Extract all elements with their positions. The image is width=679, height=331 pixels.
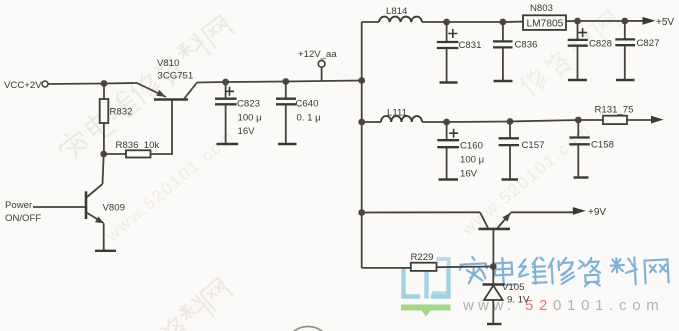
wire emitter to +9V arrow — [511, 211, 574, 213]
node junction C836 top — [500, 19, 507, 26]
ground for C158 — [574, 176, 589, 178]
resistor R131 value 75 — [595, 105, 634, 125]
node +12V_aa terminal — [298, 49, 337, 81]
svg-text:+5V: +5V — [656, 17, 674, 28]
svg-text:R832: R832 — [110, 107, 133, 118]
wire R836 to V810 base — [151, 100, 173, 154]
capacitor C160 polarized 100u 16V — [437, 122, 484, 180]
resistor R832 — [100, 99, 133, 123]
capacitor C828 polarized — [568, 21, 612, 80]
svg-text:V105: V105 — [502, 282, 524, 293]
wire V809 emitter down — [103, 223, 105, 250]
capacitor C831 polarized — [437, 22, 482, 82]
svg-text:0. 1 μ: 0. 1 μ — [297, 113, 321, 124]
svg-text:C831: C831 — [459, 40, 482, 51]
svg-text:C158: C158 — [591, 140, 614, 151]
ground for C828 — [568, 79, 587, 81]
node junction main bus top — [358, 77, 365, 84]
svg-text:C828: C828 — [589, 39, 612, 50]
svg-text:+9V: +9V — [588, 207, 606, 218]
svg-text:N803: N803 — [530, 3, 553, 14]
node junction C640 top — [282, 78, 289, 85]
wire zener to ground — [492, 301, 494, 324]
capacitor C640 value 0.1u — [276, 82, 321, 144]
wire R832 top lead — [103, 84, 105, 100]
svg-text:3CG751: 3CG751 — [158, 71, 194, 82]
regulator N803 LM7805 — [523, 3, 566, 30]
svg-text:ON/OFF: ON/OFF — [5, 213, 41, 224]
svg-text:L111: L111 — [387, 108, 407, 119]
wire bus to L111 — [362, 121, 381, 123]
ground for C157 — [502, 178, 519, 180]
wire bus corner to R229 — [362, 267, 411, 269]
inductor L814 — [379, 6, 422, 22]
node junction C823 top — [222, 79, 229, 86]
wire +12V rail — [197, 81, 362, 83]
wire junction to R836 — [104, 153, 126, 155]
node junction R836 left — [100, 151, 107, 158]
node junction zener top — [490, 263, 497, 270]
svg-text:16V: 16V — [238, 126, 256, 137]
svg-text:9. 1V: 9. 1V — [507, 295, 530, 306]
svg-text:C823: C823 — [237, 99, 260, 110]
svg-text:V810: V810 — [157, 58, 179, 69]
capacitor C827 — [615, 21, 659, 80]
node VCC+2V — [4, 80, 48, 91]
svg-text:VCC+2V: VCC+2V — [4, 80, 42, 91]
ground for C827 — [616, 79, 635, 81]
node junction C828 top — [574, 18, 581, 25]
capacitor C836 — [493, 22, 537, 81]
ground for C831 — [440, 81, 458, 83]
ground for C640 — [278, 143, 297, 145]
svg-text:V809: V809 — [103, 203, 125, 214]
wire bus to pass transistor — [362, 211, 480, 213]
wire R832 bottom lead — [103, 123, 105, 154]
node +5V output arrow — [643, 17, 675, 28]
svg-text:16V: 16V — [460, 169, 478, 180]
svg-text:Power: Power — [5, 200, 33, 211]
svg-text:R131_75: R131_75 — [595, 105, 634, 116]
resistor R229 — [411, 252, 437, 271]
svg-text:LM7805: LM7805 — [527, 19, 564, 30]
inductor L111 — [381, 108, 422, 123]
wire R229 to zener node — [437, 266, 494, 269]
node +9V output arrow — [573, 207, 607, 218]
svg-text:100 μ: 100 μ — [238, 113, 262, 124]
wire V809 collector up — [103, 154, 104, 184]
svg-text:R836_10k: R836_10k — [116, 140, 160, 151]
ground for V809 — [95, 250, 116, 252]
ground for C160 — [439, 178, 459, 180]
svg-text:R229: R229 — [411, 252, 434, 263]
wire L814 to regulator — [422, 21, 523, 23]
node junction C160 top — [443, 119, 450, 126]
node junction bus 9V row — [358, 209, 365, 216]
node junction R832 top — [101, 80, 108, 87]
capacitor C158 — [569, 120, 614, 177]
wire VCC rail left — [48, 83, 137, 84]
svg-text:C157: C157 — [522, 140, 545, 151]
svg-text:L814: L814 — [386, 6, 408, 17]
svg-text:0101.com: 0101.com — [553, 297, 664, 314]
wire bus to L814 — [362, 21, 379, 23]
node L111 output arrow — [651, 116, 664, 124]
wire V809 base — [33, 206, 86, 208]
capacitor C823 polarized 100u 16V — [215, 82, 262, 144]
wire regulator to +5V — [566, 20, 643, 22]
node junction C831 top — [443, 19, 450, 26]
node junction C827 top — [621, 18, 628, 25]
wire node to zener — [492, 267, 494, 285]
node junction C158 top — [575, 117, 582, 124]
svg-text:C827: C827 — [637, 38, 660, 49]
wire R131 to arrow — [627, 119, 653, 121]
wire transistor base down — [492, 229, 494, 267]
transistor V809 — [86, 184, 125, 223]
capacitor C157 — [499, 122, 545, 180]
transistor 9V pass — [479, 212, 511, 229]
transistor V810 type 3CG751 — [137, 58, 197, 100]
node Power ON/OFF input — [5, 200, 41, 224]
svg-text:100 μ: 100 μ — [460, 155, 484, 166]
svg-text:C836: C836 — [515, 40, 538, 51]
ground for C836 — [494, 80, 513, 82]
node junction C157 top — [507, 118, 514, 125]
resistor R836 value 10k — [116, 140, 160, 158]
ground for zener — [487, 323, 502, 325]
ground for C823 — [217, 143, 239, 145]
svg-text:+12V_aa: +12V_aa — [298, 49, 337, 60]
wire L111 row — [422, 120, 603, 122]
node junction bus L111 — [358, 119, 365, 126]
wire vertical bus — [361, 22, 363, 268]
svg-text:C160: C160 — [460, 141, 483, 152]
svg-text:C640: C640 — [296, 99, 319, 110]
zener diode V105 value 9.1V — [483, 282, 531, 306]
